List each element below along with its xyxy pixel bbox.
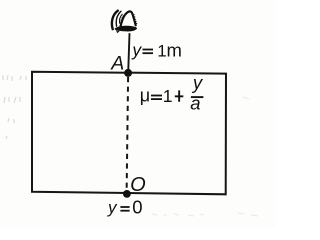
label + of equation	[175, 90, 184, 101]
svg-text:μ: μ	[140, 85, 150, 105]
label = of y=1m	[143, 49, 154, 55]
eye outer-left thick arc	[112, 11, 118, 30]
svg-text:0: 0	[132, 196, 142, 217]
node O dot	[123, 190, 131, 198]
eye lid lens filled	[115, 26, 137, 32]
label = of y=0	[120, 206, 129, 212]
svg-text:y: y	[107, 198, 118, 217]
svg-text:y: y	[191, 72, 204, 93]
eye lid tail	[117, 31, 119, 33]
faint print-through noise left margin	[3, 75, 258, 216]
eye lashes left	[120, 15, 124, 25]
eye lashes right	[133, 15, 137, 24]
dashed line A to O	[127, 77, 129, 194]
svg-text:y: y	[131, 40, 142, 60]
eye symbol	[112, 11, 137, 33]
label = of equation	[151, 95, 162, 100]
svg-text:1: 1	[157, 42, 166, 61]
vertical line eye to A	[128, 33, 129, 72]
fraction bar	[191, 96, 204, 98]
eye dome outline	[121, 11, 136, 27]
node A dot	[124, 69, 132, 77]
svg-text:1: 1	[163, 86, 173, 106]
svg-text:O: O	[130, 174, 146, 196]
eye inner arc 1	[116, 11, 121, 26]
svg-text:m: m	[167, 39, 182, 60]
svg-text:a: a	[190, 92, 200, 113]
svg-text:A: A	[110, 53, 124, 75]
slab rectangle	[32, 72, 226, 195]
eye inner arc 2	[119, 14, 122, 23]
